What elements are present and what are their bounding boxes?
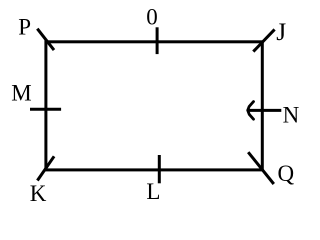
svg-text:K: K [30,181,47,205]
tick at midpoint M (left side) [30,108,61,111]
svg-text:Q: Q [278,161,295,186]
tick at midpoint O (top side) [156,27,159,54]
corner slash at vertex Q [248,152,274,184]
svg-text:L: L [146,179,160,204]
corner slash at vertex J [253,29,274,51]
svg-text:J: J [276,17,286,46]
corner slash at vertex K [37,156,54,180]
svg-text:N: N [283,103,300,128]
svg-text:P: P [18,15,31,40]
svg-text:0: 0 [146,4,158,29]
tick at midpoint L (bottom side) [158,155,161,183]
rectangle PJQK [46,42,262,170]
arrow at midpoint N (right side, pointing left) [248,102,282,120]
corner slash at vertex P [37,29,54,50]
svg-text:M: M [11,81,31,106]
